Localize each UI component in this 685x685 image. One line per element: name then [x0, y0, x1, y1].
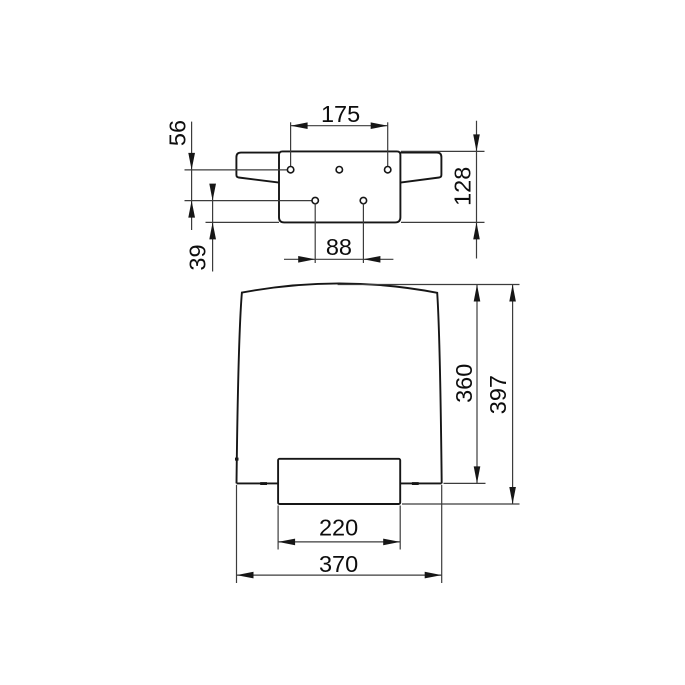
dimension 370 label: [319, 551, 358, 577]
dimension 175 extension line right: [387, 122, 389, 169]
screw hole top-left: [287, 167, 293, 173]
extension line plate-bottom left: [206, 221, 280, 223]
seat shell outline (front view): [237, 283, 442, 483]
dimension 360 line: [476, 285, 478, 484]
svg-text:397: 397: [485, 375, 511, 414]
dimension 220 line: [278, 541, 400, 543]
extension line panel-bottom right: [402, 503, 520, 505]
left wing of mounting plate: [236, 153, 279, 183]
screw hole bottom-right: [360, 197, 366, 203]
dimension 175 extension line left: [290, 122, 292, 169]
dimension 397 line: [512, 285, 514, 505]
right wing of mounting plate: [400, 153, 441, 183]
seat bottom edge left segment: [237, 482, 279, 484]
dimension 88 arrow left: [298, 256, 315, 263]
hinge tick left on seat bottom edge: [260, 482, 267, 485]
seat bottom edge right segment: [400, 482, 442, 484]
dimension 220 label: [319, 514, 358, 540]
dimension 88 arrow right: [363, 256, 380, 263]
dimension 39 label: [185, 244, 211, 270]
svg-text:56: 56: [165, 120, 191, 146]
extension line plate-bottom right: [401, 221, 485, 223]
folded seat panel rectangle: [278, 459, 400, 504]
dimension 56 line: [191, 122, 193, 230]
screw hole top-center: [336, 167, 342, 173]
screw hole top-right: [385, 167, 391, 173]
dimension 370 arrow left: [237, 572, 254, 579]
svg-text:88: 88: [326, 234, 352, 260]
svg-text:360: 360: [451, 364, 477, 403]
hinge tick right on seat bottom edge: [412, 482, 419, 485]
dimension 370 extension line left: [236, 485, 238, 583]
svg-text:175: 175: [321, 101, 360, 127]
svg-text:370: 370: [319, 551, 358, 577]
dimension 220 arrow right: [383, 539, 400, 546]
pivot mark on seat left edge: [235, 458, 239, 461]
dimension 397 arrow bottom: [509, 487, 516, 504]
dimension 220 extension line right: [399, 506, 401, 550]
dimension 128 label: [449, 167, 475, 206]
extension line hole-row-2 left: [185, 200, 316, 202]
dimension 175 line: [291, 125, 388, 127]
svg-text:128: 128: [449, 167, 475, 206]
dimension 370 extension line right: [441, 485, 443, 583]
dimension 370 arrow right: [425, 572, 442, 579]
dimension 370 line: [237, 574, 442, 576]
dimension 220 extension line left: [277, 506, 279, 550]
extension line plate-top right: [401, 150, 485, 152]
dimension 397 label: [485, 375, 511, 414]
dimension 128 arrow bottom: [473, 222, 480, 239]
dimension 360 arrow top: [474, 285, 481, 302]
svg-text:220: 220: [319, 514, 358, 540]
dimension 175 label: [321, 101, 360, 127]
dimension 175 arrow right: [371, 122, 388, 129]
screw hole bottom-left: [312, 197, 318, 203]
extension line seat-bottom right: [444, 482, 486, 484]
dimension 88 line: [284, 258, 393, 260]
dimension 56 arrow top: [188, 153, 195, 170]
dimension 56 label: [165, 120, 191, 146]
dimension 175 arrow left: [291, 122, 308, 129]
extension line seat-top right: [338, 284, 520, 286]
dimension 39 arrow bottom: [209, 222, 216, 239]
dimension 220 arrow left: [278, 539, 295, 546]
dimension 56 arrow bottom: [188, 201, 195, 218]
dimension 39 line: [212, 195, 214, 272]
mounting plate outline: [279, 151, 400, 222]
extension line hole-row-1 left: [185, 169, 292, 171]
dimension 128 line: [476, 121, 478, 259]
dimension 397 arrow top: [509, 285, 516, 302]
dimension 39 arrow top: [209, 184, 216, 201]
dimension 88 label: [326, 234, 352, 260]
dimension 128 arrow top: [473, 134, 480, 151]
dimension 88 extension line right: [362, 203, 364, 263]
svg-text:39: 39: [185, 244, 211, 270]
dimension 360 arrow bottom: [474, 466, 481, 483]
dimension 88 extension line left: [314, 203, 316, 263]
dimension 360 label: [451, 364, 477, 403]
